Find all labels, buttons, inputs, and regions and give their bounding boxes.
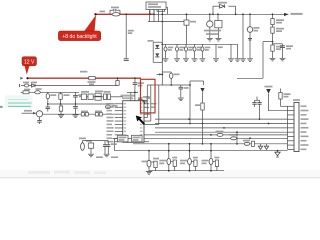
inductor label [80,71,88,73]
capacitor C503 [257,100,261,119]
transistor Q202 column [247,13,260,61]
resistor R301 inline on 12V wire [88,77,96,86]
capacitor C210 to ground [163,44,174,61]
capacitor C511 to ground [178,85,189,101]
ground triangle 2 [264,144,268,150]
component inline [35,91,41,94]
label IC601 [121,95,135,100]
transistor Q603 cell [180,143,198,171]
capacitor C401 [73,92,83,105]
capacitor C510 at IC right pins [142,97,150,103]
connector CN201 top [146,2,166,22]
mouse cursor [136,116,145,125]
capacitor C404 under Q401 [37,117,41,124]
wire horizontal over IC [147,84,190,86]
box K601 [118,135,129,142]
box K602 [112,135,142,142]
capacitor C214 to ground [200,44,211,61]
crystal X401 [93,91,103,101]
diode D201 bypass loop above rail [212,2,236,15]
capacitor C405 at IC top [138,95,150,101]
wire vertical [236,132,238,145]
wire branch from divider [237,42,273,79]
wire decoupling rail [162,43,237,45]
red annotation rectangle [141,79,156,113]
transistor Q604 cell [202,143,220,171]
wire IC pin bends up [144,85,147,118]
IC U601 main microcontroller [107,101,145,143]
callout label 12 V [22,57,37,75]
IC right pin stubs [144,103,157,142]
wire bus y127.9 [155,127,288,129]
capacitor C211 to ground [174,44,185,61]
wire left edge [0,106,3,108]
wire bus B [115,138,288,151]
video bar [0,170,320,178]
capacitor C205 vertical with bottom plates [124,13,134,60]
transistor Q602 cell [159,143,177,171]
resistor R604 inline on bus A [243,140,255,147]
resistor R403 [59,92,70,105]
capacitor C301 on 12V wire [133,77,144,87]
capacitor to ground [235,44,241,61]
capacitor C206 to ground [240,13,246,61]
resistor pair inline 2 [95,111,102,117]
wire IC pin bends up 2 [144,85,151,121]
ground triangle 1 [258,144,262,150]
teal highlight marks [5,95,33,108]
capacitor C402 to ground [73,104,79,118]
resistor R404 to ground [58,104,64,118]
wire bus 5 [144,131,288,137]
component L402 [105,105,117,109]
connector CN501 output [288,99,309,151]
component R205 under rail [184,13,196,44]
wire lower standby net [20,82,118,88]
net arrow power down symbol [265,86,288,111]
resistor R203 [271,25,284,45]
wire long vertical left bus [161,10,163,86]
diode pair D301 D302 sub-circuit [148,40,163,62]
capacitor C502 [252,97,259,108]
svg-text:+8 do backlight: +8 do backlight [62,34,97,40]
callout label +8 do backlight [58,15,100,41]
wire bus 6 [144,134,288,140]
svg-text:12 V: 12 V [24,60,35,66]
transistor Q401 [36,111,114,117]
wire 12V red [26,77,141,79]
capacitor C603 [104,141,117,157]
wire net from CN201 [148,21,184,23]
wire arrow tick [157,73,162,75]
capacitor C204 to ground [273,44,294,61]
ground triangle 3 [275,150,280,157]
ground under Q601 [146,171,152,174]
capacitor C212 to ground [183,44,194,61]
wire signal in with arrow [22,110,37,115]
resistor R502 [279,89,291,107]
wire bus y119.1 [155,118,288,120]
wire top +8V rail (red highlighted segment) [94,13,154,15]
wire top of caps [83,140,109,142]
capacitor C601 polarized [79,138,86,151]
resistor R501 from left bus [162,72,179,85]
resistor R402 [46,92,56,105]
capacitor C602 [103,141,107,154]
resistor pair inline [81,111,88,117]
capacitor to ground [213,44,223,61]
net arrow +12V right end of rail [284,13,303,16]
capacitor C403 [46,104,51,112]
wire bus y123.5 [155,123,288,125]
terminal connector 12V input [20,77,23,80]
filter FL402 [101,91,123,100]
bus junction dots [188,118,269,139]
inductor L201 on rail with parallel capacitor [100,7,121,16]
wire bus A [133,143,288,145]
resistor R601 [86,140,94,157]
wire bus y132.2 [155,131,288,133]
resistor R202 stacked column [271,13,284,24]
wire IC top feeds [127,87,138,101]
transistor Q201 below rail [207,13,213,41]
wire node bus [48,103,115,105]
filter FL401 [79,91,93,100]
resistor R401 inline [23,91,29,94]
wire top +8V rail (gray part) [154,13,284,15]
wire IC pin bends up 3 [144,85,159,125]
capacitor to ground [228,44,234,61]
regulator U201 below rail [204,13,222,41]
wire stub to connector [149,10,151,15]
resistor R204 to ground [270,45,284,61]
transistor Q601 cell [142,151,160,172]
wire vertical net to bus [189,81,204,124]
wire bottom bus [149,170,224,172]
fuse F201 bypass loop on rail [153,5,167,15]
label GND marks [96,156,118,158]
capacitor C213 to ground [192,44,203,61]
wire small net [21,88,80,92]
resistor R302 divider [116,77,119,85]
resistor R503 drop [195,88,205,145]
